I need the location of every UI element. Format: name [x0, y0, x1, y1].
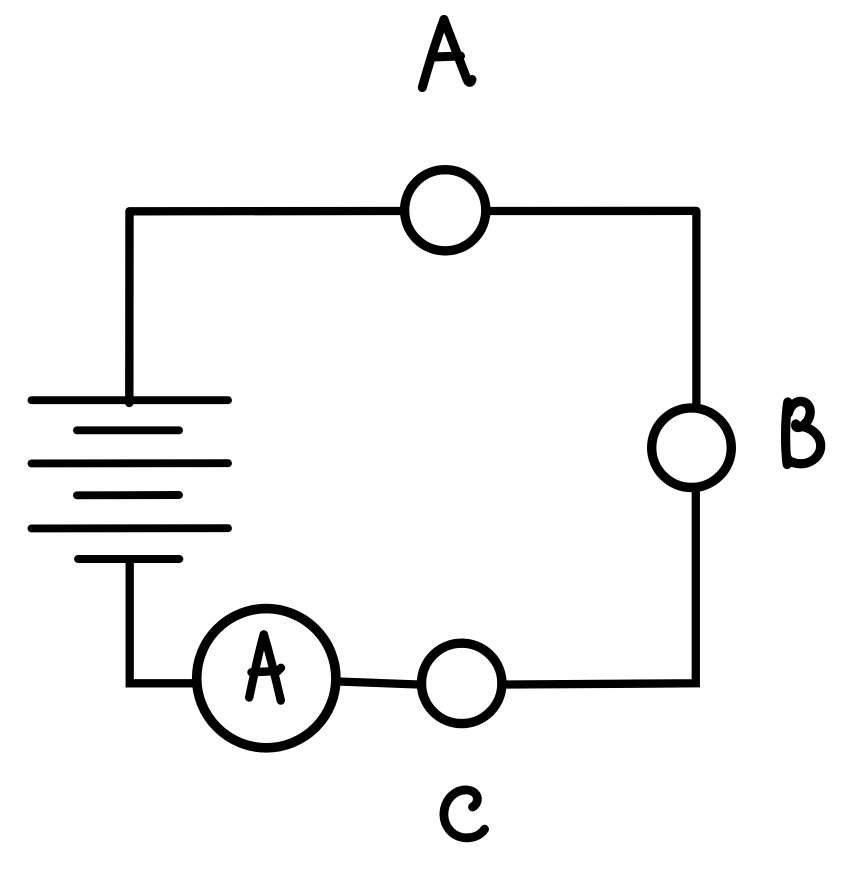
battery B1 — [32, 400, 229, 559]
wire: top horizontal left segment — [129, 207, 402, 216]
wire: lamp C to bottom-right corner and up — [504, 489, 696, 685]
battery plate short 3 (-) — [78, 555, 179, 563]
ammeter letter A — [249, 635, 281, 701]
wire: battery negative down and right to ammeter — [130, 560, 196, 683]
battery plate long 1 (+) — [32, 396, 229, 404]
battery plate short 2 — [77, 491, 179, 499]
wire: left vertical (top corner down to battery +) — [125, 211, 134, 403]
lamp C — [422, 643, 502, 723]
battery plate long 3 — [32, 524, 229, 532]
wire: ammeter to lamp C — [338, 682, 419, 685]
wire: top horizontal right segment — [489, 207, 697, 215]
battery plate short 1 — [77, 426, 179, 434]
label A (lamp A name) — [422, 20, 472, 88]
lamp B — [652, 408, 732, 488]
label C (lamp C name) — [444, 790, 485, 838]
battery plate long 2 — [32, 459, 229, 467]
lamp A — [405, 170, 486, 251]
ammeter A1 — [197, 609, 336, 748]
label B (lamp B name) — [786, 401, 821, 464]
wire: right vertical upper (lamp B to top corner) — [692, 211, 700, 406]
